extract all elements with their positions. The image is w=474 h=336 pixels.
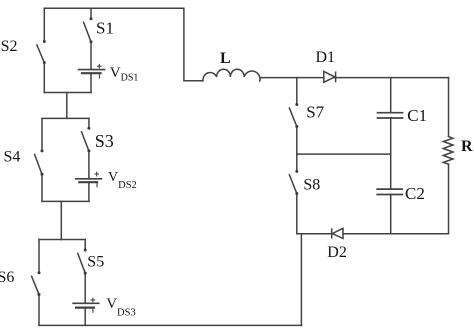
svg-text:S1: S1 [96,19,114,38]
wire: middle tap S7/S8 junction to capacitor branch [297,153,391,155]
svg-text:S3: S3 [95,131,114,151]
wire: S3 to battery VDS2 [88,151,90,179]
diode D1 [324,72,336,83]
node: S3 top terminal [87,127,90,130]
node: S7 bottom terminal [295,125,298,128]
battery VDS2 [76,172,102,187]
wire: cell2 bottom [42,200,89,202]
wire: cell2 left branch upper [41,118,43,150]
switch S4 blade [35,154,42,174]
wire: cell2 right branch upper [88,118,90,128]
switch S2 blade [37,45,44,63]
wire: S5 to battery VDS3 [84,273,86,303]
switch S1 blade [84,22,91,42]
wire: cell3 left branch upper [38,240,40,273]
wire: D2 line [297,233,449,235]
wire: bottom bus [39,324,301,326]
wire: L to right corner [260,77,449,79]
wire: VDS3 to bottom bus [84,308,86,326]
wire: cell2 top [42,117,89,119]
wire: S1 to battery VDS1 [90,42,92,70]
wire: C1 to C2 [390,118,392,189]
wire: cell1 bottom [44,92,91,94]
node: S3 bottom terminal [87,149,90,152]
wire: cell2 left branch lower [41,174,43,201]
wire: stem cell2 to cell3 [60,201,62,239]
switch S7 blade [289,108,296,127]
svg-text:S6: S6 [0,269,14,286]
node: S5 top terminal [84,249,87,252]
node: S6 top terminal [38,271,41,274]
node: S8 bottom terminal [295,192,298,195]
wire: cell1 left branch lower [43,63,45,93]
node: S1 bottom terminal [90,40,93,43]
wire: S8 bottom to D2 line [296,194,298,234]
node: S6 bottom terminal [38,293,41,296]
svg-text:S5: S5 [87,254,104,271]
diode D2 [332,228,343,238]
wire: cell1 right branch upper [90,8,92,19]
svg-text:D2: D2 [327,244,347,261]
node: S4 top terminal [41,149,44,152]
switch S8 blade [289,175,296,194]
node: S7 top terminal [295,103,298,106]
svg-text:C2: C2 [405,184,425,203]
svg-text:R: R [461,138,473,155]
svg-text:S7: S7 [306,103,324,122]
switch S6 blade [32,276,39,294]
node: S5 bottom terminal [84,272,87,275]
battery VDS3 [73,298,99,312]
battery VDS1 [79,64,105,78]
inductor L [203,69,260,81]
wire: VDS2 to cell2 bottom [88,182,90,201]
svg-text:L: L [220,50,231,67]
wire: C2 to D2 line [390,195,392,234]
wire: riser from bottom bus [300,234,302,326]
switch S5 blade [78,254,85,274]
wire: stem cell1 to cell2 [66,93,68,119]
wire: right edge above R [448,78,450,137]
wire: VDS1 to cell1 bottom [90,73,92,92]
wire: cell3 right branch upper [84,240,86,251]
wire: right edge below R [448,164,450,234]
capacitor C1 [378,113,403,118]
svg-text:S4: S4 [4,148,21,165]
wire: capacitor branch top (bus to C1) [390,78,392,113]
wire: cell1 top bus to corner [44,8,203,81]
resistor R [443,137,453,165]
wire: cell3 left branch lower [38,295,40,326]
node: S2 bottom terminal [43,61,46,64]
wire: cell3 top [39,239,85,241]
node: S8 top terminal [295,170,298,173]
svg-text:D1: D1 [316,49,336,66]
switch S3 blade [82,132,89,151]
svg-text:S2: S2 [1,38,18,55]
wire: cell1 left branch upper [43,8,45,41]
node: S4 bottom terminal [41,173,44,176]
wire: S7 bottom to S8 top [296,127,298,172]
svg-text:C1: C1 [407,106,427,125]
svg-text:S8: S8 [303,177,320,194]
node: S2 top terminal [43,40,46,43]
capacitor C2 [377,189,402,194]
node: S1 top terminal [90,17,93,20]
wire: S7 branch from top bus [296,78,298,105]
